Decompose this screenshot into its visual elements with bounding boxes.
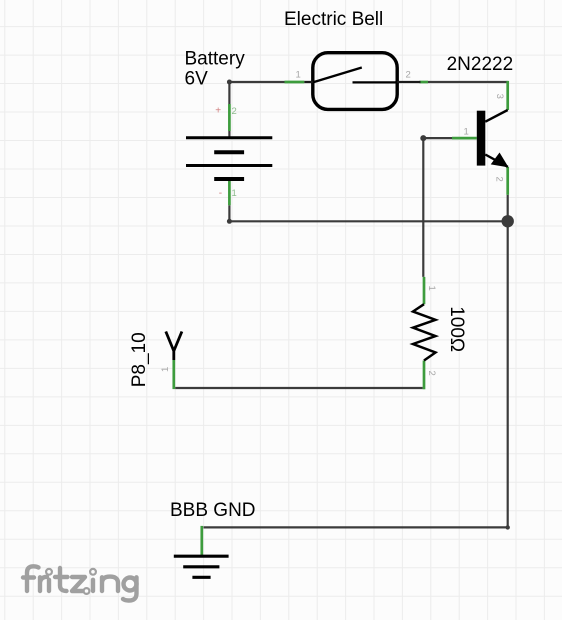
svg-text:1: 1	[426, 286, 437, 291]
svg-text:3: 3	[494, 94, 505, 99]
svg-text:Electric Bell: Electric Bell	[284, 9, 383, 30]
svg-text:6V: 6V	[185, 68, 209, 89]
svg-text:1: 1	[296, 70, 301, 81]
svg-text:2: 2	[406, 70, 411, 81]
svg-text:1: 1	[232, 188, 237, 199]
svg-text:2: 2	[232, 106, 237, 117]
svg-text:BBB GND: BBB GND	[170, 500, 256, 521]
svg-text:1: 1	[160, 367, 171, 372]
svg-text:2: 2	[494, 177, 505, 182]
svg-text:2N2222: 2N2222	[447, 54, 514, 75]
svg-text:100Ω: 100Ω	[446, 306, 467, 352]
svg-text:2: 2	[426, 371, 437, 376]
svg-text:1: 1	[464, 127, 469, 138]
svg-text:Battery: Battery	[185, 49, 246, 70]
svg-text:-: -	[219, 188, 222, 199]
svg-text:+: +	[215, 105, 221, 116]
svg-text:P8_10: P8_10	[129, 332, 150, 387]
